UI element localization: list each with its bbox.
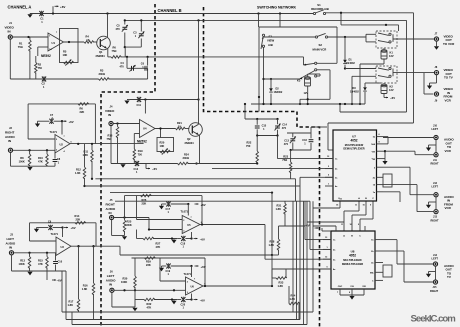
svg-text:R31: R31: [277, 204, 282, 208]
svg-text:TL071: TL071: [184, 272, 192, 276]
svg-text:VEE: VEE: [362, 286, 365, 288]
svg-text:R17: R17: [69, 299, 74, 303]
relay coil K3: [305, 78, 311, 86]
wire J1 input: [13, 36, 49, 38]
svg-text:TO TV: TO TV: [444, 76, 453, 80]
wire cell2 right leg: [147, 57, 149, 66]
svg-text:470: 470: [282, 127, 287, 130]
svg-text:R16: R16: [83, 283, 88, 287]
svg-text:R6: R6: [80, 107, 84, 111]
svg-text:IN: IN: [8, 139, 11, 143]
capacitor C20: [181, 297, 185, 302]
node +6V: [52, 12, 54, 14]
wire audio A bus 1: [95, 143, 143, 145]
wire J1 sleeve down: [9, 39, 11, 79]
wire J3 out to bus: [119, 246, 121, 255]
capacitor C14: [277, 119, 279, 124]
ground J10/J11: [426, 148, 431, 152]
U7 left pins: [325, 158, 333, 160]
svg-text:J15: J15: [433, 286, 438, 289]
wire J6 feedback top: [132, 257, 206, 259]
transistor Q2: [189, 123, 203, 137]
svg-text:IN: IN: [109, 282, 112, 286]
svg-text:750: 750: [138, 153, 143, 157]
capacitor C2: [42, 77, 46, 82]
wire bus 4: [115, 200, 310, 202]
svg-text:22K: 22K: [76, 217, 81, 221]
op-amp U4 NE592: [140, 120, 156, 138]
svg-text:K3: K3: [297, 79, 301, 83]
wire U7 to J11: [385, 150, 415, 152]
svg-text:C10: C10: [58, 261, 63, 264]
ground J9: [427, 86, 432, 90]
wire channel B +6V spur: [130, 99, 199, 101]
svg-text:47K: 47K: [156, 245, 161, 249]
svg-text:1N4002: 1N4002: [346, 62, 355, 65]
ground J12/J13: [426, 205, 431, 209]
svg-text:R3: R3: [100, 69, 104, 73]
svg-text:CHANNEL A: CHANNEL A: [8, 5, 32, 10]
resistor R26 22K: [141, 194, 152, 197]
resistor R5 gain box: [60, 29, 79, 63]
wire cell B1 bottom: [257, 135, 277, 137]
U7 power cluster: [384, 151, 386, 158]
node +6V J2: [63, 120, 67, 122]
resistor R14 22K: [75, 222, 86, 225]
wire Q2 emitter: [199, 135, 201, 164]
svg-text:RIGHT: RIGHT: [431, 219, 439, 223]
transistor Q1: [97, 36, 111, 50]
wire +6V rail: [30, 13, 314, 15]
node -6V K2: [384, 97, 388, 99]
wire K1 feed: [385, 24, 387, 26]
svg-text:47K: 47K: [38, 262, 43, 266]
svg-text:RIGHT: RIGHT: [430, 289, 438, 293]
wire U4 minus input feedback: [134, 133, 139, 135]
svg-text:LEFT: LEFT: [432, 257, 439, 261]
svg-text:22K: 22K: [80, 110, 85, 114]
capacitor C11: [137, 97, 141, 102]
svg-text:R18: R18: [108, 133, 113, 137]
wire bottom bus 2: [66, 319, 300, 321]
svg-text:R33: R33: [279, 280, 284, 284]
capacitor C15: [256, 119, 258, 125]
wire U8 to J14: [383, 239, 397, 241]
node +6V J6: [195, 265, 199, 267]
svg-text:330Ω: 330Ω: [183, 156, 189, 160]
svg-text:100K: 100K: [19, 262, 25, 266]
svg-text:R28: R28: [270, 239, 275, 243]
svg-text:22K: 22K: [142, 201, 147, 205]
U8 right small box: [383, 265, 392, 277]
svg-text:R20: R20: [160, 141, 165, 145]
svg-text:N/A: N/A: [371, 143, 375, 146]
wire U2 minus in: [28, 138, 55, 140]
op-amp U1 NE592: [48, 33, 64, 51]
wire to U7 right top: [413, 13, 415, 123]
capacitor C10: [55, 253, 57, 261]
svg-text:C11: C11: [137, 104, 142, 107]
wire U7 2a feed: [212, 168, 333, 170]
wire channel B video to U7: [278, 158, 334, 160]
ground J14/J15: [426, 274, 431, 278]
wire U7 to J12: [383, 166, 410, 168]
wire J6 jack bottom: [111, 293, 113, 308]
svg-text:LEFT: LEFT: [432, 185, 439, 189]
wire U4 supply: [144, 100, 146, 114]
svg-text:47K: 47K: [147, 305, 152, 309]
capacitor C13: [292, 133, 294, 137]
svg-text:R27: R27: [156, 242, 161, 246]
wire y99 link: [300, 98, 330, 100]
svg-text:S2: S2: [319, 43, 323, 47]
wire U1 output: [64, 41, 85, 43]
switch S1 RECORD A/B: [313, 12, 315, 14]
svg-text:1.8K: 1.8K: [68, 303, 74, 307]
svg-text:R14: R14: [75, 214, 80, 218]
wire bus y104: [251, 103, 365, 105]
svg-text:LEFT: LEFT: [432, 127, 439, 131]
svg-text:R23: R23: [283, 154, 288, 158]
svg-text:IN: IN: [108, 113, 111, 117]
wire U7 A to U8 A: [358, 201, 360, 211]
svg-text:+6V: +6V: [201, 203, 206, 207]
svg-text:U6: U6: [191, 285, 195, 289]
wire U4 output: [155, 128, 176, 130]
svg-text:J12: J12: [433, 182, 438, 185]
IC U7 4052 multiplexer/demultiplexer: [333, 130, 377, 201]
svg-text:VEE: VEE: [372, 159, 375, 161]
svg-text:100K: 100K: [121, 280, 127, 284]
relay coil K2: [381, 86, 387, 94]
resistor R34: [289, 302, 300, 305]
U8 top pins: [335, 226, 337, 231]
node -6V J3: [52, 279, 56, 281]
relay K2 contacts: [376, 66, 397, 83]
wire J2 bottom: [10, 153, 12, 167]
wire U6 output: [203, 285, 272, 287]
wire bus audio A1: [95, 178, 295, 180]
svg-text:J10: J10: [433, 124, 438, 127]
wire Q1 emitter: [107, 48, 109, 57]
capacitor C9: [34, 229, 39, 233]
svg-text:A/B: A/B: [268, 43, 273, 47]
svg-text:LEFT: LEFT: [107, 274, 115, 278]
svg-text:J13: J13: [433, 216, 438, 219]
svg-text:TO VCR: TO VCR: [443, 42, 455, 46]
wire channel A bottom return: [10, 78, 98, 80]
wire risers to multiplexers: [292, 201, 294, 312]
U7 right pins: [377, 136, 384, 138]
svg-text:750: 750: [38, 66, 43, 70]
wire bottom bus 1: [62, 311, 313, 313]
node +6V J5: [195, 203, 199, 205]
wire J6 input: [114, 289, 185, 291]
capacitor C7: [35, 124, 40, 128]
wire U1 minus input feedback: [38, 46, 48, 48]
svg-text:U3: U3: [61, 245, 65, 249]
node -6V J5: [194, 238, 198, 240]
wire U7 B to U8 B: [365, 201, 367, 215]
capacitor C8: [54, 150, 56, 158]
boundary channel A dashed: [101, 4, 155, 327]
svg-text:1N4002: 1N4002: [274, 91, 283, 94]
svg-text:VCR: VCR: [445, 206, 452, 210]
wire U5 output: [200, 224, 265, 226]
svg-text:DEMULTIPLEXER: DEMULTIPLEXER: [343, 147, 364, 151]
wire J5 feedback top: [125, 195, 203, 197]
svg-text:R8: R8: [20, 156, 24, 160]
connector J13 RIGHT audio in vcr: [434, 210, 438, 214]
svg-text:12V: 12V: [389, 88, 394, 92]
wire J3 bottom: [11, 255, 13, 271]
svg-text:U2: U2: [60, 143, 64, 147]
svg-text:470: 470: [120, 65, 125, 68]
svg-text:RECORD A/B: RECORD A/B: [311, 7, 329, 11]
svg-text:−6V: −6V: [305, 224, 310, 228]
capacitor C17: [159, 206, 164, 210]
wire bottom bus 3: [72, 324, 307, 326]
svg-text:2N2864: 2N2864: [96, 54, 106, 58]
wire U7 to J10: [383, 137, 434, 139]
wire U6 minus in: [159, 258, 161, 281]
capacitor C12: [135, 161, 139, 166]
resistor R33: [276, 277, 287, 280]
svg-text:CHANNEL B: CHANNEL B: [158, 8, 182, 13]
wire J5 jack bottom: [111, 220, 113, 236]
svg-text:Q1: Q1: [99, 50, 103, 54]
resistor R27: [143, 237, 154, 240]
svg-text:IN: IN: [9, 246, 12, 250]
wire cell B2 bottom: [291, 149, 311, 151]
svg-text:N/A: N/A: [370, 271, 374, 274]
resistor R20 gain box: [157, 138, 174, 152]
resistor R29 22K: [145, 257, 156, 260]
wire S2 pole1 feed: [303, 57, 305, 65]
wire network box: [259, 26, 337, 28]
svg-text:C2: C2: [42, 82, 46, 86]
svg-text:Q2: Q2: [187, 137, 191, 141]
svg-text:−6V: −6V: [57, 279, 62, 283]
U7 right small box: [383, 174, 392, 187]
wire J3 input: [14, 252, 56, 254]
svg-text:MULTIPLEXER/: MULTIPLEXER/: [345, 143, 364, 147]
wire U7 C to U8 C: [372, 201, 374, 219]
svg-text:1.8K: 1.8K: [269, 243, 275, 247]
wire Q1 collector to rail: [107, 14, 109, 38]
wire J3 feedback top: [30, 222, 97, 224]
wire J5 input: [114, 217, 149, 219]
svg-text:1.8K: 1.8K: [278, 284, 284, 288]
switch S3 VIEW A/B: [262, 34, 264, 36]
ground J5 mid: [171, 240, 176, 244]
resistor R32: [144, 298, 155, 301]
svg-text:TV: TV: [447, 275, 451, 279]
svg-text:R10: R10: [38, 156, 43, 160]
svg-text:1.8K: 1.8K: [82, 287, 88, 291]
ground channel B bottom: [120, 164, 125, 168]
svg-text:1.8K: 1.8K: [83, 153, 89, 157]
svg-text:U1: U1: [52, 41, 56, 45]
svg-text:VCR: VCR: [445, 149, 452, 153]
wire view bus: [125, 19, 407, 21]
svg-text:470: 470: [284, 143, 289, 146]
ground at rail left end: [27, 14, 32, 18]
ground channel B top: [124, 101, 129, 105]
svg-text:12V: 12V: [389, 54, 394, 58]
U8 bottom pins: [339, 289, 341, 295]
svg-text:VSS: VSS: [350, 286, 353, 288]
wire S3 to pole bus: [263, 47, 265, 104]
svg-text:4052: 4052: [349, 254, 356, 258]
svg-text:SWITCHING NETWORK: SWITCHING NETWORK: [257, 6, 297, 10]
svg-text:MAIN VCR: MAIN VCR: [313, 48, 327, 52]
svg-text:U4: U4: [143, 127, 147, 131]
wire J2 feedback top: [28, 103, 95, 105]
node -6V channel B: [146, 168, 150, 170]
wire U3 output: [71, 245, 120, 247]
connector J15 RIGHT audio out tv: [433, 280, 437, 284]
wire J5 to U8: [265, 258, 331, 260]
wire U7 to J13: [383, 184, 417, 186]
node -6V J6: [194, 299, 198, 301]
U8 right pins: [375, 239, 383, 241]
svg-text:J11: J11: [433, 159, 438, 162]
svg-text:R6: R6: [113, 46, 117, 50]
capacitor C1: [39, 11, 43, 16]
svg-text:DEMULTIPLEXER: DEMULTIPLEXER: [342, 262, 363, 266]
connector J11 RIGHT audio out vcr: [434, 153, 438, 157]
trim cell 1 loop: [124, 20, 126, 24]
svg-text:TL071: TL071: [51, 232, 59, 236]
switch S2 pole contacts: [315, 62, 317, 64]
svg-text:R15: R15: [38, 258, 43, 262]
svg-text:R29: R29: [146, 259, 151, 263]
svg-text:RIGHT: RIGHT: [106, 202, 116, 206]
svg-text:750: 750: [246, 144, 251, 148]
svg-text:R12: R12: [76, 167, 81, 171]
svg-text:−6V: −6V: [200, 237, 205, 241]
svg-text:TL071: TL071: [181, 209, 189, 213]
svg-text:R13: R13: [20, 258, 25, 262]
svg-text:R22: R22: [247, 140, 252, 144]
svg-text:R32: R32: [147, 302, 152, 306]
svg-text:−6V: −6V: [390, 96, 395, 100]
resistor R6a 22K: [78, 103, 89, 106]
svg-text:U5: U5: [187, 223, 191, 227]
svg-text:LEFT: LEFT: [7, 237, 15, 241]
wire cell1 tie: [124, 47, 126, 57]
svg-text:MULTIPLEXER/: MULTIPLEXER/: [343, 258, 362, 262]
capacitor C18: [181, 236, 185, 241]
wire J2 input: [13, 149, 55, 151]
capacitor C19: [159, 268, 164, 272]
svg-text:NE592: NE592: [41, 54, 51, 58]
svg-text:330Ω: 330Ω: [99, 72, 105, 76]
connector J9 VIDEO IN FROM VCR: [434, 92, 438, 96]
IC U8 4052 multiplexer/demultiplexer: [331, 231, 375, 289]
svg-text:R30: R30: [123, 276, 128, 280]
wire cell B1 to U7: [277, 136, 279, 159]
svg-text:RIGHT: RIGHT: [5, 130, 15, 134]
trim cell B1 rail: [245, 118, 278, 120]
svg-text:4052: 4052: [350, 139, 357, 143]
svg-text:1.8K: 1.8K: [290, 297, 296, 301]
svg-text:RIGHT: RIGHT: [431, 162, 439, 166]
svg-text:1.8K: 1.8K: [75, 171, 81, 175]
svg-text:470: 470: [116, 28, 121, 31]
svg-text:75Ω: 75Ω: [18, 45, 23, 49]
svg-text:R24: R24: [184, 152, 189, 156]
svg-text:−6V: −6V: [152, 167, 157, 171]
svg-text:NE592: NE592: [137, 140, 147, 144]
svg-text:R25: R25: [127, 220, 132, 224]
svg-text:R19: R19: [138, 149, 143, 153]
boundary switching network dashed: [204, 7, 320, 327]
wire U8 to J15: [390, 250, 404, 252]
wire J8/J9 tie: [423, 73, 425, 94]
svg-text:−6V: −6V: [200, 298, 205, 302]
svg-text:K2: K2: [390, 85, 394, 89]
relay coil K1: [381, 51, 387, 59]
svg-text:+6V: +6V: [69, 120, 74, 124]
capacitor C16: [310, 133, 312, 138]
svg-text:+6V: +6V: [60, 5, 65, 9]
switch S2 MAIN VCR: [315, 36, 317, 38]
svg-text:IN: IN: [109, 211, 112, 215]
svg-text:K1: K1: [390, 51, 394, 55]
wire U7 pin to bus: [383, 191, 400, 193]
svg-text:VSS: VSS: [372, 151, 375, 153]
wire U2 output: [70, 143, 95, 145]
svg-text:1N4002: 1N4002: [350, 90, 359, 93]
svg-text:R2: R2: [38, 63, 42, 67]
svg-text:J14: J14: [433, 254, 438, 257]
svg-text:+6V: +6V: [71, 226, 76, 230]
wire J4 sleeve down: [110, 126, 112, 164]
svg-text:75Ω: 75Ω: [112, 49, 117, 53]
wire J6 to U8: [271, 269, 273, 286]
svg-text:10K: 10K: [63, 53, 68, 57]
wire Q2 collector: [198, 20, 200, 124]
svg-text:IN: IN: [8, 29, 11, 33]
wire channel B video bottom: [111, 163, 178, 165]
svg-text:TL071: TL071: [50, 130, 58, 134]
ground J6 mid: [171, 301, 176, 305]
svg-text:2N3904: 2N3904: [185, 141, 195, 145]
svg-text:SeekIC.com: SeekIC.com: [411, 314, 457, 325]
trim cell 2: [126, 57, 128, 68]
trim cell B2 rail: [310, 127, 312, 133]
svg-text:1.8K: 1.8K: [276, 207, 282, 211]
wire bus audio A2: [85, 185, 301, 187]
svg-text:R1: R1: [19, 42, 23, 46]
wire J4 input: [113, 123, 139, 125]
node +6V J3: [64, 227, 68, 229]
wire bus y255: [120, 254, 272, 256]
junction dots on +6V rail: [106, 12, 108, 14]
relay K1 contacts: [376, 31, 397, 48]
svg-text:VCR: VCR: [445, 98, 452, 102]
svg-text:47K: 47K: [38, 159, 43, 163]
svg-text:22K: 22K: [146, 263, 151, 267]
U8 left pins: [323, 239, 331, 241]
svg-text:10K: 10K: [160, 144, 165, 148]
wire bus 3: [110, 192, 272, 194]
svg-text:OSC: OSC: [338, 286, 343, 288]
svg-text:100K: 100K: [19, 159, 25, 163]
svg-text:+6V: +6V: [201, 265, 206, 269]
